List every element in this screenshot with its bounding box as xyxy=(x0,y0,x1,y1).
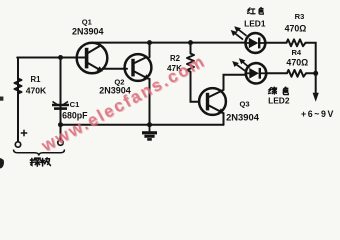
probe terminal right xyxy=(58,140,63,145)
label red-color (se) xyxy=(259,8,263,15)
node: top bus / Q2 collector xyxy=(147,40,152,45)
label green-color (se) xyxy=(283,87,288,94)
node: ground bus / Q2 emitter xyxy=(147,122,152,127)
resistor R3 xyxy=(287,39,306,46)
node: right bus / R4 xyxy=(313,71,318,76)
plus sign at probe xyxy=(21,130,28,137)
wire: LED1 to R3 xyxy=(265,42,286,44)
svg-text:Q3: Q3 xyxy=(240,100,250,109)
svg-text:LED1: LED1 xyxy=(244,18,266,28)
brace under probe terminals xyxy=(14,150,65,156)
capacitor C1 xyxy=(52,102,69,109)
wire: bottom ground bus xyxy=(61,124,224,126)
resistor R1 xyxy=(15,79,22,96)
svg-text:LED2: LED2 xyxy=(268,96,290,106)
svg-text:Q1: Q1 xyxy=(82,18,93,27)
svg-text:2N3904: 2N3904 xyxy=(72,26,104,36)
svg-text:470Ω: 470Ω xyxy=(285,23,307,33)
supply arrow +6~9V xyxy=(313,93,319,102)
LED1 emission arrows xyxy=(231,26,247,39)
resistor R2 xyxy=(187,54,194,72)
wire: top collector bus xyxy=(95,42,246,44)
wire: R3 to right bus corner xyxy=(306,43,316,93)
LED1 xyxy=(246,33,266,53)
svg-text:R4: R4 xyxy=(291,48,301,57)
wire: Q3 collector riser to LED2 xyxy=(222,75,246,91)
svg-text:R3: R3 xyxy=(295,12,305,21)
wire: top-left horizontal to Q1 base xyxy=(17,57,86,59)
ground xyxy=(142,125,157,140)
label green-color (lv) xyxy=(269,87,277,94)
transistor Q3 xyxy=(199,88,226,115)
label probe (tan) xyxy=(30,158,40,166)
wire: left vertical probe lead xyxy=(17,58,19,142)
LED2 emission arrows xyxy=(232,58,249,71)
resistor R4 xyxy=(287,70,306,77)
label probe (ji) xyxy=(41,158,51,166)
wire: Q2 collector drop xyxy=(149,43,151,58)
node: C1 / ground bus xyxy=(58,122,63,127)
transistor Q1 xyxy=(77,43,108,74)
probe terminal left xyxy=(15,142,20,147)
scan artifact: bottom-left blob xyxy=(0,158,4,169)
node: top bus / R2 xyxy=(188,40,193,45)
svg-text:470K: 470K xyxy=(26,86,47,96)
wire: Q2 emitter to ground bus xyxy=(149,79,151,125)
transistor Q2 xyxy=(125,54,152,81)
wire: LED2 to R4 xyxy=(266,72,287,74)
svg-text:470Ω: 470Ω xyxy=(286,57,308,67)
wire: R2 bottom lead to Q3 base xyxy=(191,72,200,102)
wire: R4 to right bus junction xyxy=(306,72,316,74)
svg-text:C1: C1 xyxy=(70,100,80,109)
svg-text:R1: R1 xyxy=(31,75,42,84)
wire: Q1 emitter to Q2 base xyxy=(103,68,128,70)
wire: C1 branch vertical xyxy=(60,58,62,140)
label red-color (hong) xyxy=(247,8,255,14)
svg-text:2N3904: 2N3904 xyxy=(226,111,260,122)
wire: Q3 emitter riser xyxy=(222,112,224,124)
LED2 xyxy=(246,63,266,83)
svg-text:+6~9V: +6~9V xyxy=(301,109,335,119)
node: junction top-left to C1 xyxy=(58,55,63,60)
wire: R2 top lead xyxy=(190,43,192,54)
scan artifact: left edge tick xyxy=(0,97,3,101)
